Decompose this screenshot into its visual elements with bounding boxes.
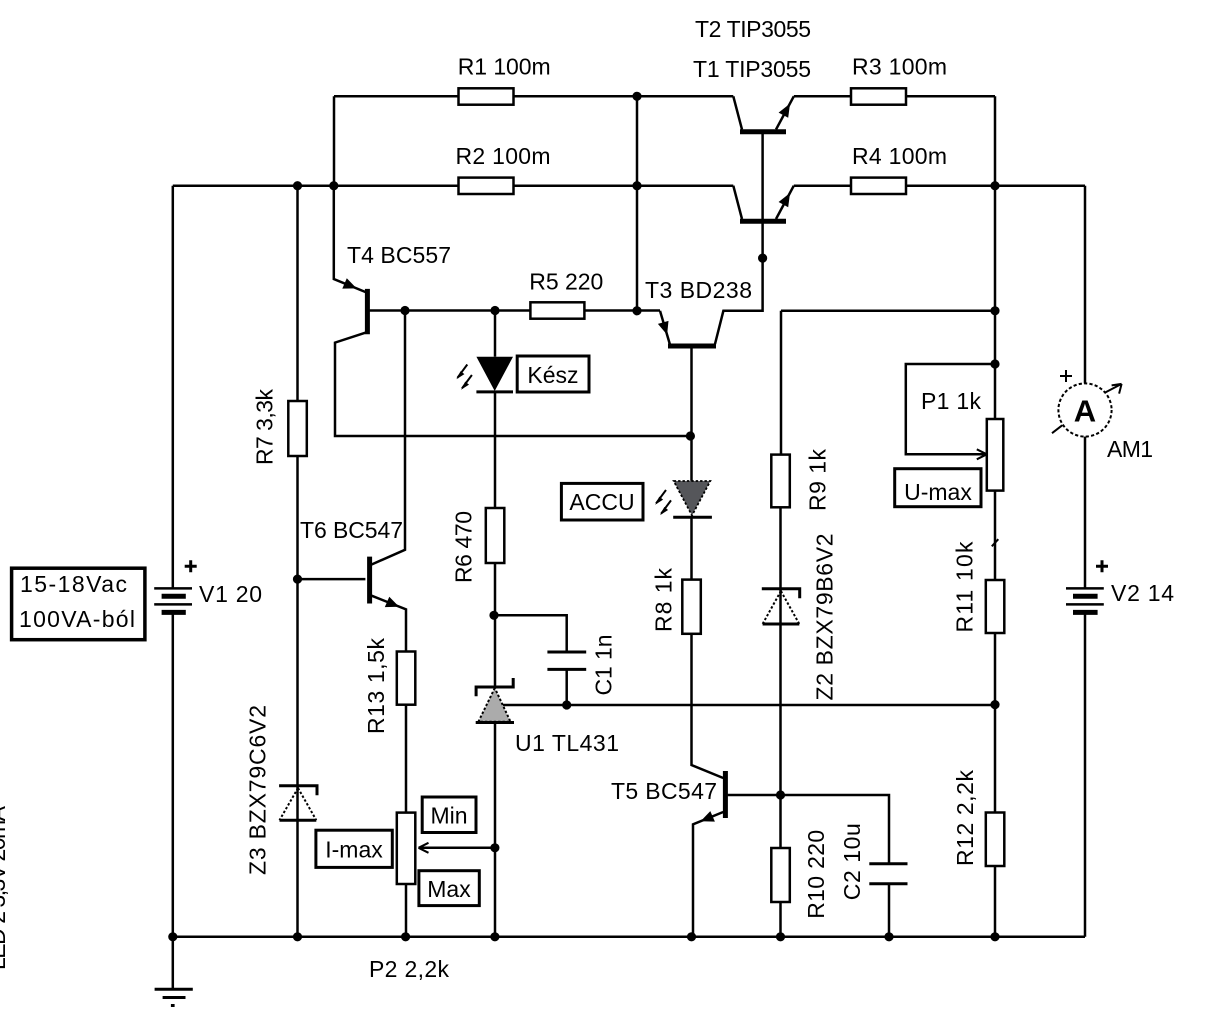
label box ACCU [561, 483, 643, 520]
battery V2 [1066, 588, 1104, 612]
wire top rail right segment y=96 to corner x=995 [794, 95, 995, 98]
wire R10 to rail [779, 902, 782, 937]
node dot second rail x=297 [293, 181, 302, 190]
transistor T3 bar [668, 344, 716, 349]
resistor R6 [486, 508, 505, 563]
svg-text:V2 14: V2 14 [1111, 580, 1174, 606]
resistor R1 [459, 88, 514, 104]
arrowhead P1 wiper [977, 449, 987, 459]
resistor R3 [851, 88, 906, 104]
svg-text:R2 100m: R2 100m [456, 143, 551, 169]
svg-text:Kész: Kész [527, 362, 578, 388]
resistor R11 [986, 580, 1005, 633]
shunt regulator U1 anode bar [476, 721, 514, 724]
wire C1 bottom [565, 669, 568, 705]
plus sign AM1 [1060, 370, 1072, 382]
svg-text:R13 1,5k: R13 1,5k [363, 638, 389, 735]
arrowhead P2 wiper [419, 843, 429, 853]
wire T2 emitter diagonal [776, 96, 794, 129]
wire left supply vertical upper (to V1) [172, 186, 175, 589]
wire T5 base node to R10 [779, 795, 782, 848]
wire T3 base through LED ACCU top [690, 348, 693, 481]
svg-text:15-18Vac: 15-18Vac [20, 571, 127, 597]
arrow T5 emitter [701, 811, 715, 822]
potentiometer P1 body [987, 419, 1004, 491]
LED D1 light arrows [457, 365, 472, 389]
svg-text:AM1: AM1 [1107, 436, 1153, 462]
svg-text:T5 BC547: T5 BC547 [611, 778, 717, 804]
node dot base line x=405 [400, 306, 409, 315]
svg-text:Min: Min [430, 803, 467, 829]
wire Z2 top to R9 [779, 507, 782, 795]
node dot base line x=637 [632, 306, 641, 315]
wire T3 emitter diagonal [660, 311, 670, 344]
wire ammeter top lead [1084, 186, 1087, 384]
svg-text:R4 100m: R4 100m [852, 143, 947, 169]
resistor R5 [530, 302, 584, 318]
wire T4 base to T6 collector [372, 311, 405, 565]
svg-text:T6 BC547: T6 BC547 [300, 517, 403, 543]
svg-text:T4 BC557: T4 BC557 [347, 242, 451, 268]
node dot rail x=691 [687, 932, 696, 941]
wire C2 to rail [888, 884, 891, 937]
node dot ref line x=995 [990, 700, 999, 709]
wire T2 collector diagonal [733, 96, 742, 129]
wire U1 reference line y=705 [503, 704, 995, 707]
ground [155, 937, 193, 1006]
wire R13 to P2 [405, 705, 408, 813]
svg-text:R9 1k: R9 1k [805, 449, 831, 512]
svg-text:ACCU: ACCU [569, 489, 634, 515]
svg-text:R11 10k: R11 10k [952, 541, 978, 633]
node dot rail x=297 [293, 932, 302, 941]
svg-text:R6 470: R6 470 [451, 511, 477, 583]
wire T4 emitter lead [334, 186, 366, 292]
node dot sense line x=995 [990, 306, 999, 315]
battery V1 [154, 588, 192, 612]
node dot second rail x=637 [632, 181, 641, 190]
wire T6 emitter to R13 [372, 596, 406, 652]
svg-text:R7 3,3k: R7 3,3k [252, 389, 278, 466]
node dot T6 base [293, 575, 302, 584]
svg-text:U1 TL431: U1 TL431 [515, 730, 619, 756]
node dot top rail x=637 [632, 92, 641, 101]
node dot rail x=889 [884, 932, 893, 941]
svg-text:100VA-ból: 100VA-ból [19, 606, 135, 632]
label box mains [12, 568, 145, 640]
node dot T1 T2 base chain [758, 254, 767, 263]
arrow T2 emitter [779, 104, 790, 118]
wire link x=637 between rails [636, 96, 639, 310]
arrow T3 emitter [658, 321, 669, 335]
svg-text:I-max: I-max [325, 837, 383, 863]
wire U1 to rail [494, 723, 497, 937]
node dot second rail x=334 [329, 181, 338, 190]
wire ammeter to V2 [1084, 436, 1087, 588]
wire R11 to R12 [994, 633, 997, 813]
wire second rail right segment y=186 [794, 184, 995, 187]
label box U-max [895, 469, 981, 507]
zener Z2 cathode bar [762, 589, 800, 598]
wire R6 to U1 [494, 563, 497, 687]
resistor R4 [851, 178, 906, 194]
svg-text:T2 TIP3055: T2 TIP3055 [695, 16, 811, 42]
node dot C1 tap [489, 611, 498, 620]
resistor R2 [459, 178, 514, 194]
wire R7 branch upper [296, 186, 299, 401]
LED D1 Kesz cathode bar [476, 390, 513, 393]
wire bottom rail [173, 936, 1085, 939]
shunt regulator U1 triangle [478, 688, 510, 722]
wire drop from top rail to second rail x=334 [333, 96, 336, 185]
wire R7 to Z3 [296, 456, 299, 937]
node dot rail x=780 [776, 932, 785, 941]
svg-text:R1 100m: R1 100m [458, 54, 551, 80]
wire sense drop to R9 [780, 311, 783, 455]
wire LED Kesz to R6 [494, 392, 497, 508]
wire T4 base / R5 line y=310 [370, 309, 660, 312]
svg-text:C2 10u: C2 10u [839, 823, 865, 900]
svg-text:LED-2 3,3V 20mA: LED-2 3,3V 20mA [0, 805, 10, 970]
wire R8 to T5 collector [692, 634, 724, 778]
wire LED ACCU to R8 [690, 517, 693, 579]
svg-text:R8 1k: R8 1k [651, 568, 677, 633]
svg-text:U-max: U-max [904, 479, 972, 505]
resistor R8 [682, 580, 701, 634]
plus sign V1 [185, 560, 197, 572]
resistor R12 [986, 813, 1005, 867]
shunt regulator U1 cathode bar [476, 678, 513, 696]
zener Z3 cathode bar [279, 786, 317, 795]
wire T5 base to C2 [728, 795, 889, 864]
LED D2 ACCU cathode bar [673, 516, 712, 519]
svg-text:T1 TIP3055: T1 TIP3055 [693, 56, 811, 82]
LED D2 light arrows [656, 490, 671, 514]
capacitor C1 [547, 652, 586, 669]
resistor R7 [288, 401, 307, 456]
wire T1 T2 base chain to T3 collector [715, 134, 763, 345]
arrow T6 emitter [385, 597, 399, 607]
wire P1 to R11 [994, 491, 997, 580]
LED D1 Kesz triangle [476, 357, 513, 391]
resistor R9 [771, 455, 790, 508]
label box I-max [316, 830, 392, 867]
node dot rail x=172 [168, 932, 177, 941]
svg-text:R12 2,2k: R12 2,2k [952, 770, 978, 867]
resistor R13 [397, 652, 416, 705]
label box Min [422, 797, 476, 833]
ammeter AM1 arrow [1052, 384, 1122, 433]
label box Kesz [517, 356, 589, 392]
wire output node to ammeter branch [995, 184, 1085, 187]
wire T1 emitter diagonal [776, 186, 794, 219]
node dot T5 base node [776, 790, 785, 799]
LED D2 ACCU triangle [674, 481, 711, 516]
svg-text:Z2 BZX79B6V2: Z2 BZX79B6V2 [812, 534, 838, 701]
wire LED Kesz branch top [494, 311, 497, 357]
wire T1 collector diagonal [733, 186, 742, 219]
node dot second rail x=995 [990, 181, 999, 190]
potentiometer P2 body [397, 813, 416, 884]
wire T6 base [298, 578, 366, 581]
wire second rail left segment y=186 [173, 184, 734, 187]
node dot T3 base T4 collector [686, 431, 695, 440]
node dot P1 top [990, 359, 999, 368]
wire T5 emitter to rail [693, 812, 723, 937]
transistor T1 bar [740, 219, 786, 224]
svg-text:T3 BD238: T3 BD238 [645, 277, 752, 303]
svg-text:P1 1k: P1 1k [921, 388, 982, 414]
label box Max [419, 871, 479, 906]
node dot P2 wiper [490, 843, 499, 852]
arrow T1 emitter [779, 193, 790, 207]
wire left supply vertical lower (V1 to rail) [172, 612, 175, 936]
svg-text:Z3 BZX79C6V2: Z3 BZX79C6V2 [245, 705, 271, 875]
zener Z3 triangle [280, 819, 317, 822]
svg-text:R10 220: R10 220 [803, 830, 829, 919]
wire T4 collector lead [335, 333, 690, 436]
svg-text:Max: Max [427, 876, 471, 902]
svg-text:A: A [1074, 394, 1096, 429]
wire voltage sense line y=310 right [781, 310, 995, 313]
transistor T4 bar [365, 289, 370, 334]
svg-text:C1 1n: C1 1n [591, 635, 617, 696]
wire R12 to rail [994, 866, 997, 937]
wire top rail left segment y=96 [334, 95, 733, 98]
wire V2 to rail [1084, 612, 1087, 936]
wire output column x=995 top [994, 96, 997, 419]
svg-text:R3 100m: R3 100m [852, 54, 947, 80]
plus sign V2 [1096, 560, 1108, 572]
wire P2 wiper [420, 847, 495, 850]
svg-text:P2 2,2k: P2 2,2k [369, 956, 450, 982]
node dot C1 ref [562, 700, 571, 709]
capacitor C2 [869, 864, 907, 884]
wire P1 wiper [906, 364, 995, 454]
node dot base line x=495 [490, 306, 499, 315]
zener Z2 triangle [763, 623, 800, 626]
resistor R10 [771, 848, 790, 902]
node dot rail x=406 [401, 932, 410, 941]
node dot rail x=495 [490, 932, 499, 941]
wire P2 to rail [405, 884, 408, 937]
transistor T2 bar [740, 129, 786, 134]
transistor T5 bar [723, 771, 728, 818]
ammeter AM1 circle [1058, 383, 1111, 436]
node dot rail x=995 [990, 932, 999, 941]
svg-text:R5 220: R5 220 [529, 268, 603, 294]
tick wire-break on output column [992, 539, 999, 546]
arrow T4 emitter [342, 278, 356, 288]
svg-text:V1 20: V1 20 [199, 581, 262, 607]
wire C1 tap [494, 615, 567, 652]
transistor T6 bar [367, 557, 372, 604]
